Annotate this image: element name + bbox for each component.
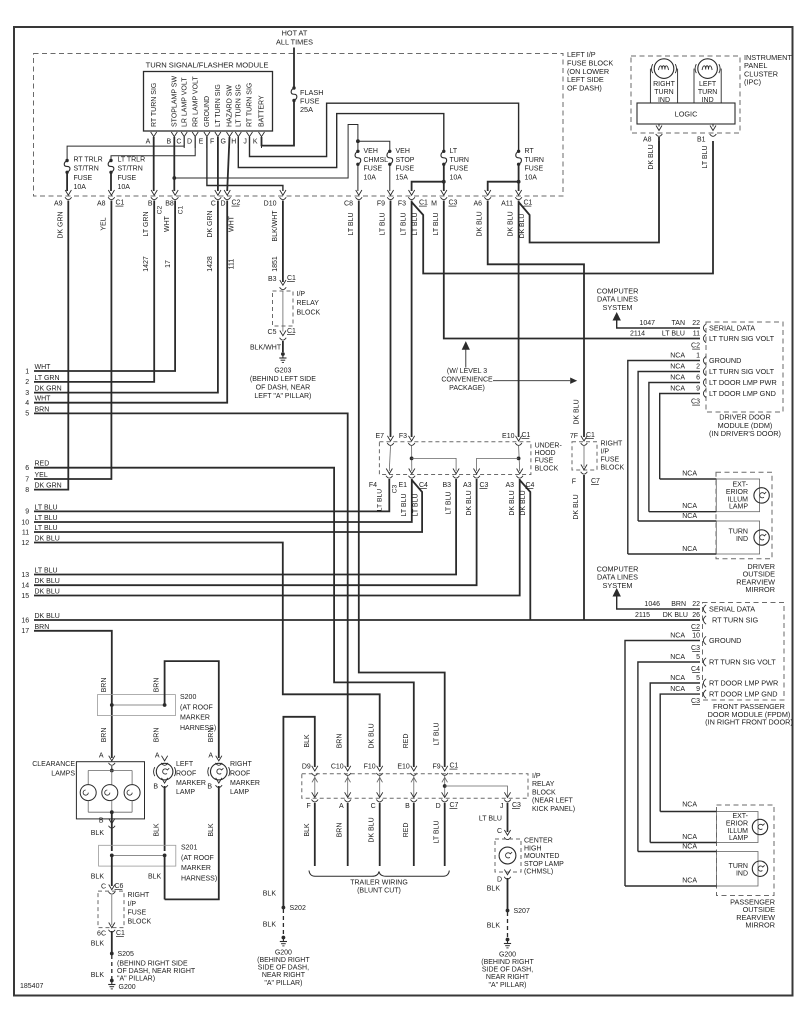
lamp: driver turn indicator lamp — [716, 521, 759, 554]
lamp: passenger turn indicator lamp — [717, 852, 759, 887]
fuse: VEH CHMSL FUSE 10A — [356, 150, 359, 153]
mirror: driver outside rearview mirror dashed box — [716, 472, 772, 559]
fuse: VEH STOP FUSE 15A — [388, 150, 391, 153]
svg-text:10: 10 — [21, 519, 29, 526]
wire: D10 BLK/WHT 1851 down to I/P relay block — [282, 201, 284, 283]
svg-text:IND: IND — [736, 536, 748, 543]
svg-text:5: 5 — [25, 411, 29, 418]
svg-text:DK BLU: DK BLU — [648, 144, 655, 169]
svg-text:C3: C3 — [449, 200, 458, 207]
svg-text:(IN DRIVER'S DOOR): (IN DRIVER'S DOOR) — [709, 429, 781, 438]
svg-text:C3: C3 — [512, 802, 521, 809]
wire: LT BLU from relay J to CHMSL — [507, 803, 509, 832]
svg-text:E10: E10 — [397, 764, 410, 771]
svg-text:BLK: BLK — [154, 823, 161, 837]
svg-text:BLK: BLK — [263, 922, 277, 929]
svg-text:C5: C5 — [268, 329, 277, 336]
svg-text:DK BLU: DK BLU — [519, 214, 526, 239]
svg-text:A6: A6 — [473, 201, 482, 208]
svg-text:HARNESS): HARNESS) — [181, 875, 217, 882]
svg-text:UNDER-: UNDER- — [535, 443, 563, 450]
svg-text:5: 5 — [696, 675, 700, 682]
svg-text:F: F — [210, 138, 214, 145]
node: data line arrow upper — [613, 312, 621, 321]
svg-text:NEAR RIGHT: NEAR RIGHT — [486, 974, 530, 981]
svg-text:RT: RT — [525, 148, 535, 155]
svg-text:C10: C10 — [331, 764, 344, 771]
svg-text:RT DOOR LMP PWR: RT DOOR LMP PWR — [709, 679, 778, 688]
svg-text:C3: C3 — [480, 482, 489, 489]
svg-text:NCA: NCA — [682, 844, 697, 851]
svg-text:I/P: I/P — [532, 773, 541, 780]
svg-text:BLOCK: BLOCK — [297, 309, 321, 316]
wire: battery feed down to flash fuse — [293, 48, 295, 88]
svg-text:17: 17 — [21, 628, 29, 635]
svg-text:3: 3 — [25, 390, 29, 397]
svg-text:IND: IND — [736, 871, 748, 878]
wire: FPDM NCA RT door lmp pwr row — [650, 683, 700, 843]
fuse: FLASH FUSE 25A — [292, 86, 295, 89]
svg-text:(W/ LEVEL 3: (W/ LEVEL 3 — [447, 368, 487, 375]
wire: left marker BLK to S201 — [164, 786, 166, 851]
svg-text:BRN: BRN — [101, 678, 108, 693]
svg-text:LT BLU: LT BLU — [412, 493, 419, 516]
svg-text:NCA: NCA — [682, 878, 697, 885]
svg-text:RED: RED — [35, 461, 50, 468]
svg-text:A11: A11 — [501, 201, 513, 208]
svg-text:A8: A8 — [643, 137, 652, 144]
svg-text:C3: C3 — [691, 645, 700, 652]
svg-text:TAN: TAN — [672, 320, 685, 327]
svg-text:BLK: BLK — [487, 886, 501, 893]
svg-text:DK BLU: DK BLU — [369, 723, 376, 748]
svg-text:LT BLU: LT BLU — [445, 491, 452, 514]
svg-text:RED: RED — [403, 734, 410, 749]
mirror: passenger outside rearview mirror dashed box — [717, 805, 775, 896]
svg-text:RIGHT: RIGHT — [230, 761, 253, 768]
svg-text:8: 8 — [25, 487, 29, 494]
svg-text:BLOCK: BLOCK — [128, 918, 152, 925]
svg-text:MOUNTED: MOUNTED — [524, 853, 559, 860]
svg-text:ST/TRN: ST/TRN — [118, 166, 143, 173]
svg-text:C1: C1 — [522, 432, 531, 439]
svg-text:TURN: TURN — [698, 89, 717, 96]
underhood internal links — [389, 446, 390, 471]
svg-text:RIGHT: RIGHT — [128, 892, 151, 899]
svg-text:E1: E1 — [398, 482, 407, 489]
svg-text:NCA: NCA — [682, 503, 697, 510]
svg-text:D: D — [436, 803, 441, 810]
svg-text:ERIOR: ERIOR — [726, 820, 748, 827]
svg-text:S200: S200 — [180, 694, 196, 701]
svg-text:(CHMSL): (CHMSL) — [524, 869, 553, 876]
svg-text:C1: C1 — [524, 200, 533, 207]
svg-text:C4: C4 — [526, 482, 535, 489]
wire: pin K battery down-right — [261, 137, 263, 146]
svg-text:LAMP: LAMP — [230, 789, 249, 796]
svg-text:ALL TIMES: ALL TIMES — [276, 38, 313, 47]
svg-text:BRN: BRN — [208, 728, 215, 743]
svg-text:GROUND: GROUND — [709, 356, 741, 365]
svg-text:RIGHT: RIGHT — [653, 81, 676, 88]
svg-text:LT BLU: LT BLU — [35, 504, 58, 511]
svg-text:RT DOOR LMP GND: RT DOOR LMP GND — [709, 690, 778, 699]
svg-text:1046: 1046 — [644, 601, 660, 608]
svg-text:LT BLU: LT BLU — [401, 493, 408, 516]
svg-text:SERIAL DATA: SERIAL DATA — [709, 605, 755, 614]
svg-text:H: H — [231, 138, 236, 145]
svg-text:HIGH: HIGH — [524, 845, 542, 852]
svg-text:MARKER: MARKER — [180, 715, 210, 722]
svg-text:A: A — [99, 752, 104, 759]
svg-text:DK BLU: DK BLU — [477, 211, 484, 236]
ground: G200 for CHMSL — [506, 938, 510, 942]
wire: dashed BLK to G200 — [111, 955, 113, 979]
svg-text:14: 14 — [21, 583, 29, 590]
svg-text:WHT: WHT — [164, 215, 171, 232]
svg-text:DK BLU: DK BLU — [573, 494, 580, 519]
wire: pin H to LT TURN fuse rail — [238, 114, 443, 168]
svg-text:G200: G200 — [119, 984, 136, 991]
svg-text:C4: C4 — [419, 482, 428, 489]
svg-text:LAMPS: LAMPS — [51, 770, 75, 777]
svg-text:C1: C1 — [586, 432, 595, 439]
svg-text:BRN: BRN — [154, 678, 161, 693]
wire: row 17 BRN to S200 splice — [34, 631, 112, 758]
svg-text:LT BLU: LT BLU — [702, 145, 709, 168]
svg-text:RT TURN SIG VOLT: RT TURN SIG VOLT — [709, 658, 776, 667]
svg-text:FUSE: FUSE — [128, 910, 147, 917]
svg-text:MIRROR: MIRROR — [745, 585, 775, 594]
svg-text:FUSE: FUSE — [396, 166, 415, 173]
svg-text:LT GRN: LT GRN — [35, 375, 60, 382]
svg-text:OF DASH, NEAR RIGHT: OF DASH, NEAR RIGHT — [117, 968, 196, 975]
svg-text:SYSTEM: SYSTEM — [602, 581, 632, 590]
node: pointer arrow to right I/P fuse block — [493, 380, 570, 382]
svg-text:K: K — [253, 138, 258, 145]
svg-text:LOGIC: LOGIC — [675, 110, 698, 119]
svg-text:10A: 10A — [525, 174, 538, 181]
svg-text:RT TURN SIG: RT TURN SIG — [247, 83, 254, 127]
svg-text:2114: 2114 — [630, 331, 645, 338]
svg-text:NEAR RIGHT: NEAR RIGHT — [262, 972, 306, 979]
svg-text:(AT ROOF: (AT ROOF — [181, 855, 214, 862]
svg-text:FUSE: FUSE — [535, 458, 554, 465]
svg-text:FUSE: FUSE — [525, 166, 544, 173]
svg-text:ILLUM: ILLUM — [727, 828, 748, 835]
svg-text:C1: C1 — [287, 328, 296, 335]
svg-text:DK BLU: DK BLU — [35, 536, 60, 543]
svg-text:"A" PILLAR): "A" PILLAR) — [264, 980, 302, 987]
svg-text:111: 111 — [228, 259, 235, 270]
svg-text:DK GRN: DK GRN — [35, 483, 62, 490]
svg-text:C1: C1 — [450, 763, 459, 770]
wire: A9 DK GRN down to row 8 — [34, 201, 68, 490]
wire: row 11 LT BLU to underhood E1 branch — [34, 480, 422, 532]
svg-text:12: 12 — [21, 540, 29, 547]
svg-text:9: 9 — [696, 686, 700, 693]
svg-text:D10: D10 — [264, 201, 277, 208]
svg-text:RT TURN SIG: RT TURN SIG — [712, 616, 759, 625]
svg-text:GROUND: GROUND — [204, 96, 211, 127]
svg-text:BLK: BLK — [91, 830, 105, 837]
svg-text:RELAY: RELAY — [297, 300, 320, 307]
svg-text:11: 11 — [22, 529, 29, 536]
svg-text:I/P: I/P — [297, 291, 306, 298]
svg-text:C3: C3 — [691, 399, 700, 406]
svg-text:C: C — [211, 201, 216, 208]
svg-text:9: 9 — [25, 509, 29, 516]
svg-text:(BEHIND RIGHT SIDE: (BEHIND RIGHT SIDE — [117, 961, 188, 968]
wire: A8 YEL down to row 7 — [34, 201, 111, 480]
fuse: LT TRLR ST/TRN FUSE 10A — [109, 159, 112, 162]
svg-text:ROOF: ROOF — [176, 770, 196, 777]
svg-text:(NEAR LEFT: (NEAR LEFT — [532, 798, 574, 805]
svg-text:C7: C7 — [450, 802, 459, 809]
svg-text:C1: C1 — [287, 275, 296, 282]
svg-text:6C: 6C — [97, 931, 106, 938]
svg-text:15A: 15A — [396, 174, 409, 181]
svg-text:GROUND: GROUND — [709, 636, 741, 645]
svg-text:LT BLU: LT BLU — [35, 515, 58, 522]
svg-text:E7: E7 — [375, 433, 384, 440]
svg-text:FUSE: FUSE — [118, 175, 137, 182]
svg-text:SYSTEM: SYSTEM — [602, 303, 632, 312]
svg-text:TURN: TURN — [450, 157, 469, 164]
svg-text:22: 22 — [692, 601, 700, 608]
svg-text:C: C — [371, 803, 376, 810]
svg-text:NCA: NCA — [670, 675, 685, 682]
svg-text:WHT: WHT — [35, 364, 52, 371]
wire: RT TURN fuse output split to A6 and A11 — [518, 164, 520, 191]
svg-text:LT TURN SIG: LT TURN SIG — [215, 84, 222, 127]
node: pointer arrow up to 2114 circuit — [465, 349, 467, 368]
svg-text:I/P: I/P — [601, 449, 610, 456]
svg-text:ERIOR: ERIOR — [726, 489, 748, 496]
wire: clearance lamps BLK to S201 — [111, 812, 113, 851]
svg-text:B: B — [148, 201, 153, 208]
lamp: LEFT TURN IND indicator bulb — [698, 59, 718, 79]
svg-text:BRN: BRN — [35, 624, 50, 631]
splice: S205 — [110, 952, 114, 956]
svg-text:16: 16 — [21, 617, 29, 624]
svg-text:RT TRLR: RT TRLR — [74, 157, 103, 164]
svg-text:LT BLU: LT BLU — [479, 816, 502, 823]
wire: S201 BLK to right I/P fuse block — [111, 855, 113, 886]
wire: row 14 DK BLU to underhood A3 — [34, 479, 477, 585]
wire: A6 DK BLU to right I/P fuse block 7F — [488, 201, 584, 438]
svg-text:F9: F9 — [377, 201, 385, 208]
svg-text:DK BLU: DK BLU — [35, 613, 60, 620]
svg-text:HOT AT: HOT AT — [282, 29, 308, 38]
svg-text:LT TURN SIG: LT TURN SIG — [236, 84, 243, 127]
svg-text:LT BLU: LT BLU — [434, 722, 441, 745]
svg-text:NCA: NCA — [670, 386, 685, 393]
svg-text:LT: LT — [450, 148, 458, 155]
svg-text:C: C — [497, 828, 502, 835]
svg-text:NCA: NCA — [682, 802, 697, 809]
svg-text:HAZARD SW: HAZARD SW — [227, 85, 234, 127]
svg-text:LT DOOR LMP GND: LT DOOR LMP GND — [709, 389, 776, 398]
svg-text:B8: B8 — [165, 201, 174, 208]
svg-text:KICK PANEL): KICK PANEL) — [532, 806, 575, 813]
svg-text:15: 15 — [21, 593, 29, 600]
svg-text:17: 17 — [165, 260, 172, 268]
svg-text:BLOCK: BLOCK — [601, 465, 625, 472]
wire: M LT BLU down to DDM 2114 row — [444, 201, 700, 339]
svg-text:C2: C2 — [691, 624, 700, 631]
svg-text:BLK: BLK — [208, 823, 215, 837]
svg-text:B: B — [153, 783, 158, 790]
svg-text:ILLUM: ILLUM — [727, 496, 748, 503]
wire: right I/P fuse block DK BLU output to row 16 — [583, 475, 585, 620]
wire: right marker BLK down and to S201 branch — [165, 786, 219, 899]
svg-text:C1: C1 — [116, 930, 125, 937]
svg-text:10A: 10A — [450, 174, 463, 181]
svg-text:C8: C8 — [344, 201, 353, 208]
svg-text:E: E — [199, 138, 204, 145]
svg-text:LEFT: LEFT — [699, 81, 717, 88]
relay block internal wires — [314, 776, 316, 797]
svg-text:ST/TRN: ST/TRN — [74, 166, 99, 173]
wire: underhood C4 branch joining row 16 — [520, 480, 531, 620]
wire: pin C to RT TRLR fuse — [67, 137, 184, 160]
svg-text:DK GRN: DK GRN — [35, 386, 62, 393]
svg-text:9: 9 — [696, 386, 700, 393]
wire: A11 branch DK BLU to IPC A8 — [519, 141, 659, 243]
wire: pin E ground to connector D10 — [207, 137, 283, 191]
svg-text:(IPC): (IPC) — [744, 78, 761, 87]
node: stop lamp feed junction at fuse bracket — [356, 139, 360, 143]
svg-text:1428: 1428 — [207, 256, 214, 272]
svg-text:G: G — [220, 138, 225, 145]
svg-text:S202: S202 — [290, 905, 306, 912]
connector: underhood bottom row F4 E1 B3 A3 A3 — [386, 469, 392, 474]
svg-text:C2: C2 — [691, 343, 700, 350]
svg-text:STOP: STOP — [396, 157, 415, 164]
svg-text:DK BLU: DK BLU — [369, 817, 376, 842]
svg-text:LAMP: LAMP — [176, 789, 195, 796]
svg-text:DK BLU: DK BLU — [508, 211, 515, 236]
wire: A11 DK BLU down to underhood E10 — [518, 201, 520, 438]
svg-text:FUSE: FUSE — [450, 166, 469, 173]
wires: NCA to driver ext illum lamp — [660, 478, 717, 480]
svg-text:BRN: BRN — [337, 823, 344, 838]
svg-text:TURN: TURN — [729, 863, 748, 870]
svg-text:A9: A9 — [54, 201, 63, 208]
wire: C8 LT BLU down to trailer F9 feed — [359, 201, 445, 768]
svg-text:1427: 1427 — [143, 256, 150, 272]
svg-text:(BEHIND RIGHT: (BEHIND RIGHT — [257, 957, 310, 964]
svg-text:"A" PILLAR): "A" PILLAR) — [117, 976, 155, 983]
svg-text:BLK: BLK — [91, 941, 105, 948]
svg-text:J: J — [243, 138, 247, 145]
svg-text:NCA: NCA — [670, 375, 685, 382]
wire: bracket joining VEH CHMSL and VEH STOP fuse tops — [358, 141, 390, 150]
svg-text:25A: 25A — [300, 105, 313, 114]
wire: trailer BLK from S202 riser to D9 — [283, 717, 314, 906]
ground: G200 for trailer BLK — [282, 936, 286, 940]
svg-text:ROOF: ROOF — [230, 770, 250, 777]
svg-text:B3: B3 — [442, 482, 451, 489]
svg-text:NCA: NCA — [682, 471, 697, 478]
svg-text:F3: F3 — [398, 201, 406, 208]
svg-text:TURN: TURN — [729, 529, 748, 536]
svg-text:C3: C3 — [691, 698, 700, 705]
wire: F3 LT BLU down to underhood F3 — [411, 201, 413, 438]
svg-text:RR LAMP VOLT: RR LAMP VOLT — [192, 76, 199, 127]
wire: B8 WHT 17 down to row 1 — [34, 201, 175, 372]
wire: pin G down to connector D — [227, 137, 229, 191]
wire: row 10 LT BLU to underhood E1 — [34, 479, 412, 522]
node: data line arrow lower — [613, 588, 621, 597]
svg-text:LT DOOR LMP PWR: LT DOOR LMP PWR — [709, 378, 777, 387]
svg-text:A: A — [155, 752, 160, 759]
svg-text:C3: C3 — [392, 484, 399, 493]
splice: S200 at roof marker harness — [98, 695, 176, 716]
svg-text:HOOD: HOOD — [535, 450, 556, 457]
svg-text:1047: 1047 — [639, 320, 655, 327]
connector: trailer top row D9 C10 F10 E10 F9 — [312, 766, 318, 771]
svg-text:MARKER: MARKER — [176, 780, 206, 787]
svg-text:F: F — [307, 803, 311, 810]
svg-text:6: 6 — [696, 375, 700, 382]
svg-text:NCA: NCA — [682, 834, 697, 841]
wire: row 13 LT BLU to underhood B3 — [34, 479, 456, 575]
svg-text:BLK: BLK — [263, 891, 277, 898]
svg-text:D: D — [187, 138, 192, 145]
svg-text:LT GRN: LT GRN — [143, 211, 150, 236]
svg-text:LT TURN SIG VOLT: LT TURN SIG VOLT — [709, 334, 775, 343]
svg-text:C2: C2 — [157, 205, 164, 214]
svg-text:FUSE: FUSE — [601, 457, 620, 464]
svg-text:SIDE OF DASH,: SIDE OF DASH, — [258, 965, 309, 972]
svg-text:EXT-: EXT- — [732, 482, 748, 489]
wire: row 9 LT BLU to underhood F4 — [34, 479, 389, 511]
svg-text:C1: C1 — [419, 200, 428, 207]
svg-text:LT BLU: LT BLU — [662, 331, 685, 338]
svg-text:NCA: NCA — [670, 686, 685, 693]
svg-text:A: A — [146, 138, 151, 145]
svg-text:C: C — [176, 138, 181, 145]
svg-text:(AT ROOF: (AT ROOF — [180, 704, 213, 711]
module: LOGIC box — [637, 103, 735, 124]
svg-text:MARKER: MARKER — [230, 780, 260, 787]
svg-text:BLK: BLK — [91, 972, 105, 979]
wires: trailer blunt cut stubs — [314, 803, 316, 866]
svg-text:C1: C1 — [178, 205, 185, 214]
svg-text:22: 22 — [692, 320, 700, 327]
wire: stoplamp sw branch to CHMSL/stop fuses rail — [174, 125, 358, 179]
svg-text:BRN: BRN — [154, 728, 161, 743]
svg-text:VEH: VEH — [364, 148, 378, 155]
svg-text:B: B — [166, 138, 171, 145]
svg-text:DK GRN: DK GRN — [57, 211, 64, 238]
svg-text:D: D — [497, 877, 502, 884]
svg-text:WHT: WHT — [228, 215, 235, 232]
svg-text:1851: 1851 — [272, 256, 279, 272]
wire: BRN branch to right roof marker lamp — [165, 661, 219, 758]
svg-text:LT BLU: LT BLU — [433, 212, 440, 235]
relay block: I/P relay block dashed box — [302, 774, 528, 799]
wire: pin D to LT TRLR fuse — [111, 137, 195, 160]
svg-text:EXT-: EXT- — [732, 813, 748, 820]
svg-text:F4: F4 — [369, 482, 377, 489]
wire: row 5 BRN to trailer C10 — [34, 413, 348, 767]
svg-text:(BEHIND LEFT SIDE: (BEHIND LEFT SIDE — [250, 376, 316, 383]
svg-text:LR LAMP VOLT: LR LAMP VOLT — [181, 77, 188, 127]
svg-text:RT TURN SIG: RT TURN SIG — [151, 83, 158, 127]
